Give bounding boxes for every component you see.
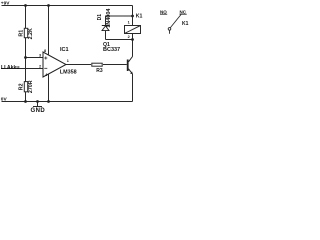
wire LI Akku to inverting input — [1, 68, 43, 70]
svg-text:1: 1 — [67, 59, 69, 63]
relay coil K1 — [125, 13, 143, 39]
svg-text:R1: R1 — [18, 30, 24, 37]
svg-text:2: 2 — [128, 35, 130, 39]
wire relay supply vertical — [132, 6, 134, 26]
ground — [31, 102, 46, 114]
wire emitter to 0V — [132, 74, 134, 102]
svg-text:1: 1 — [128, 21, 130, 25]
wire opamp output to R3 — [66, 64, 91, 66]
wire R1 bottom to node — [25, 38, 27, 82]
svg-text:NO: NO — [160, 9, 167, 14]
wire R2 bottom — [25, 92, 27, 102]
svg-text:R2: R2 — [18, 83, 24, 90]
svg-text:K1: K1 — [136, 13, 143, 19]
diode D1 1N4004 — [97, 8, 112, 31]
svg-text:IC1: IC1 — [60, 47, 69, 53]
resistor R1 — [18, 28, 34, 39]
svg-text:BC337: BC337 — [103, 47, 120, 53]
wire D1 anode to collector node — [106, 39, 133, 41]
wire 0V rail — [2, 101, 133, 103]
svg-text:LI Akku: LI Akku — [1, 65, 20, 71]
svg-text:2.2K: 2.2K — [28, 28, 34, 39]
junction dots — [24, 4, 134, 103]
resistor R2 — [18, 80, 34, 93]
wire IC1 pin4 to 0V — [48, 74, 50, 102]
svg-text:2: 2 — [39, 65, 41, 69]
resistor R3 — [92, 63, 103, 74]
relay contact K1 — [160, 9, 189, 33]
svg-text:1N4004: 1N4004 — [106, 8, 112, 28]
wire +9V top rail — [2, 5, 133, 7]
svg-text:D1: D1 — [97, 14, 103, 21]
wire IC1 pin8 — [48, 6, 50, 55]
svg-text:3: 3 — [39, 54, 41, 58]
wire R3 to base — [103, 64, 127, 66]
op-amp U1 LM358 — [39, 47, 77, 77]
svg-text:LM358: LM358 — [60, 69, 77, 75]
wire noninverting input — [26, 57, 44, 59]
transistor Q1 BC337 — [103, 42, 133, 74]
svg-text:270R: 270R — [28, 80, 34, 93]
svg-text:8: 8 — [44, 49, 46, 53]
svg-text:R3: R3 — [96, 68, 103, 74]
svg-text:GND: GND — [31, 108, 46, 114]
svg-text:0V: 0V — [1, 97, 8, 103]
wire R1 top — [25, 6, 27, 29]
svg-text:K1: K1 — [182, 21, 189, 27]
svg-text:NC: NC — [180, 9, 187, 14]
wire D1 cathode to relay — [106, 16, 133, 40]
svg-text:+9V: +9V — [1, 1, 10, 7]
wire relay coil pin2 to collector — [132, 34, 134, 57]
